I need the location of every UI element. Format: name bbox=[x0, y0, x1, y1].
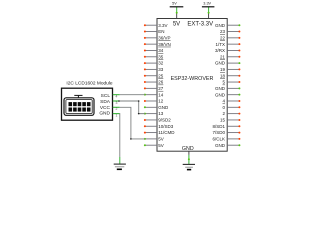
ESP32 top pin 5V bbox=[173, 13, 180, 28]
svg-text:GND: GND bbox=[215, 86, 226, 91]
ESP32-WROVER module U1 body bbox=[157, 19, 227, 152]
svg-text:GND: GND bbox=[215, 61, 226, 66]
svg-text:ESP32-WROVER: ESP32-WROVER bbox=[171, 76, 214, 82]
svg-text:GND: GND bbox=[215, 23, 226, 28]
svg-text:9/SD2: 9/SD2 bbox=[158, 118, 171, 123]
ESP32 left pin 25 row8 bbox=[144, 73, 164, 78]
svg-text:15: 15 bbox=[220, 118, 226, 123]
ESP32 left pin 12 row12 bbox=[144, 99, 164, 104]
ESP32 left pin 10/SD3 row16 bbox=[144, 124, 174, 129]
ESP32 left pin 5V row19 bbox=[144, 143, 164, 148]
LCD pin 2 VCC bbox=[100, 105, 120, 111]
ESP32 left pin 27 row10 bbox=[144, 86, 164, 91]
svg-text:36/VP: 36/VP bbox=[158, 35, 170, 40]
svg-text:I2C LCD1602 Module: I2C LCD1602 Module bbox=[66, 81, 112, 87]
svg-text:GND: GND bbox=[158, 105, 169, 110]
ESP32 right pin 19 row7 bbox=[220, 67, 240, 72]
ESP32 right pin 18 row8 bbox=[220, 73, 240, 78]
ESP32 bottom pin GND bbox=[182, 146, 194, 155]
svg-text:27: 27 bbox=[158, 86, 164, 91]
svg-text:3.3V: 3.3V bbox=[158, 23, 167, 28]
LCD pin 4 SCL bbox=[101, 93, 120, 99]
ESP32 right pin 5 row9 bbox=[222, 80, 240, 85]
svg-text:22: 22 bbox=[220, 35, 226, 40]
ESP32 left pin GND row13 bbox=[144, 105, 169, 110]
svg-text:GND: GND bbox=[182, 146, 194, 152]
wire SCL to ESP32 pin 14 bbox=[120, 94, 145, 96]
wire 5V supply bbox=[176, 7, 178, 14]
wire SDA to ESP32 pin 13 bbox=[118, 100, 145, 114]
svg-text:11/CMD: 11/CMD bbox=[158, 130, 175, 135]
svg-text:EXT-3.3V: EXT-3.3V bbox=[187, 22, 213, 28]
ESP32 left pin 32 row6 bbox=[144, 61, 164, 66]
ground symbol right bbox=[183, 164, 195, 169]
ESP32 right pin GND row11 bbox=[215, 92, 240, 97]
ESP32 left pin 33 row7 bbox=[144, 67, 164, 72]
ESP32 right pin GND row0 bbox=[215, 23, 240, 28]
5V power symbol bbox=[170, 1, 184, 6]
svg-text:33: 33 bbox=[158, 67, 164, 72]
svg-text:5V: 5V bbox=[173, 22, 180, 28]
svg-text:2: 2 bbox=[116, 107, 118, 111]
ESP32 left pin 35 row5 bbox=[144, 54, 164, 59]
svg-text:6/CLK: 6/CLK bbox=[212, 136, 225, 141]
svg-text:GND: GND bbox=[215, 143, 226, 148]
ESP32 right pin 8/SD1 row16 bbox=[212, 124, 240, 129]
ESP32 left pin 3.3V row0 bbox=[144, 23, 168, 28]
ESP32 right pin 21 row5 bbox=[220, 54, 240, 59]
svg-text:3/RX: 3/RX bbox=[215, 48, 225, 53]
svg-text:21: 21 bbox=[220, 54, 226, 59]
LCD header connector icon bbox=[64, 95, 94, 115]
ESP32 right pin 2 row14 bbox=[222, 111, 240, 116]
ESP32 top pin EXT-3.3V bbox=[187, 13, 213, 28]
svg-text:EN: EN bbox=[158, 29, 164, 34]
svg-text:32: 32 bbox=[158, 61, 164, 66]
ESP32 left pin 34 row4 bbox=[144, 48, 164, 53]
LCD pin 1 GND bbox=[99, 111, 119, 118]
svg-text:25: 25 bbox=[158, 73, 164, 78]
ESP32 left pin 9/SD2 row15 bbox=[144, 118, 171, 123]
ESP32 right pin 7/SD0 row17 bbox=[212, 130, 240, 135]
svg-text:7/SD0: 7/SD0 bbox=[212, 130, 225, 135]
svg-text:GND: GND bbox=[215, 92, 226, 97]
wire 3.3V supply bbox=[208, 7, 210, 14]
svg-text:19: 19 bbox=[220, 67, 226, 72]
svg-text:5V: 5V bbox=[172, 1, 177, 5]
wire VCC to ESP32 5V bbox=[120, 107, 145, 139]
svg-text:35: 35 bbox=[158, 54, 164, 59]
svg-text:4: 4 bbox=[116, 95, 118, 99]
ESP32 left pin 14 row11 bbox=[144, 92, 164, 97]
svg-text:12: 12 bbox=[158, 99, 164, 104]
ground symbol left bbox=[114, 164, 126, 169]
ESP32 right pin 15 row15 bbox=[220, 118, 240, 123]
svg-text:10/SD3: 10/SD3 bbox=[158, 124, 174, 129]
svg-text:26: 26 bbox=[158, 80, 164, 85]
ESP32 left pin 5V row18 bbox=[144, 136, 164, 141]
svg-text:GND: GND bbox=[99, 111, 110, 117]
ESP32 right pin GND row19 bbox=[215, 143, 240, 148]
svg-text:39/VN: 39/VN bbox=[158, 42, 171, 47]
3.3V power symbol bbox=[202, 1, 215, 6]
svg-text:14: 14 bbox=[158, 92, 164, 97]
svg-text:34: 34 bbox=[158, 48, 164, 53]
LCD pin 3 SDA bbox=[100, 99, 119, 105]
ESP32 left pin 36/VP row2 bbox=[144, 35, 171, 40]
ESP32 right pin 22 row2 bbox=[220, 35, 240, 40]
svg-text:8/SD1: 8/SD1 bbox=[212, 124, 225, 129]
ESP32 right pin 1/TX row3 bbox=[215, 42, 240, 47]
ESP32 right pin 4 row12 bbox=[222, 99, 240, 104]
svg-text:5V: 5V bbox=[158, 143, 164, 148]
svg-text:5V: 5V bbox=[158, 136, 164, 141]
ESP32 left pin 13 row14 bbox=[144, 111, 164, 116]
ESP32 right pin GND row10 bbox=[215, 86, 240, 91]
svg-text:13: 13 bbox=[158, 111, 164, 116]
I2C LCD1602 module body bbox=[62, 81, 113, 121]
svg-text:SCL: SCL bbox=[101, 93, 111, 99]
ESP32 left pin 11/CMD row17 bbox=[144, 130, 175, 135]
svg-text:SDA: SDA bbox=[100, 99, 111, 105]
svg-text:18: 18 bbox=[220, 73, 226, 78]
ESP32 right pin 6/CLK row18 bbox=[212, 136, 240, 141]
ESP32 right pin 3/RX row4 bbox=[215, 48, 240, 53]
ESP32 left pin 39/VN row3 bbox=[144, 42, 171, 47]
svg-text:VCC: VCC bbox=[100, 105, 111, 111]
ESP32 left pin 26 row9 bbox=[144, 80, 164, 85]
ESP32 right pin 23 row1 bbox=[220, 29, 240, 34]
wire LCD GND down bbox=[119, 114, 121, 164]
svg-text:23: 23 bbox=[220, 29, 226, 34]
ESP32 right pin 0 row13 bbox=[222, 105, 240, 110]
svg-text:1: 1 bbox=[116, 114, 118, 118]
ESP32 right pin GND row6 bbox=[215, 61, 240, 66]
svg-text:3.3V: 3.3V bbox=[203, 1, 211, 5]
ESP32 left pin EN row1 bbox=[144, 29, 165, 34]
wire ESP32 GND to ground bbox=[188, 155, 190, 164]
svg-text:3: 3 bbox=[116, 101, 118, 105]
svg-text:1/TX: 1/TX bbox=[215, 42, 225, 47]
